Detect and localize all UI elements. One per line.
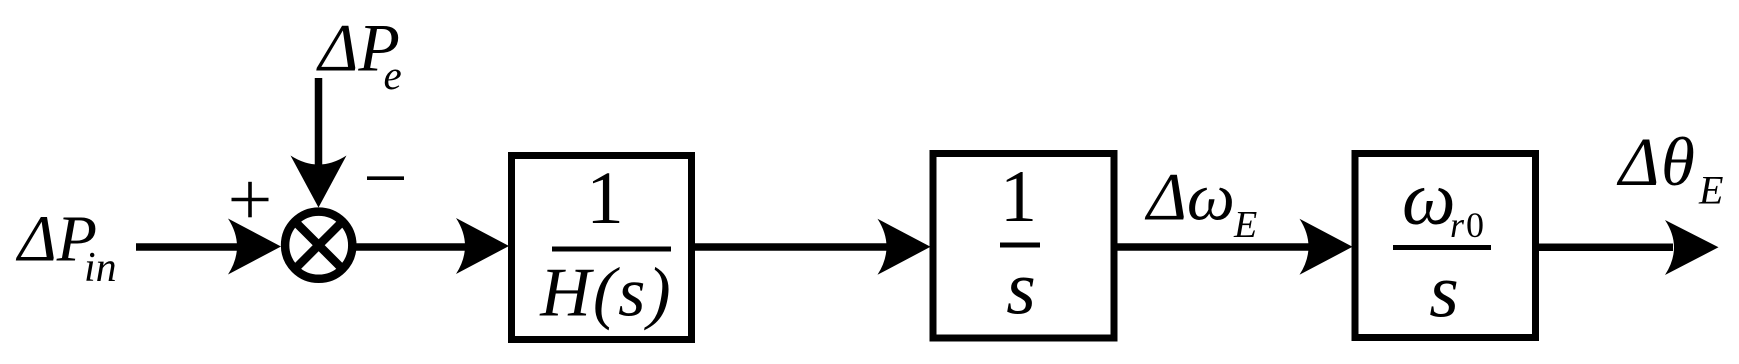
minus sign [367, 176, 404, 180]
svg-text:s: s [1429, 250, 1459, 334]
svg-text:Δθ: Δθ [1616, 124, 1696, 200]
block 1/H(s) [512, 156, 692, 340]
arrowhead output [1665, 220, 1719, 275]
wire block 1/s to block ωr0/s [1116, 243, 1309, 251]
arrowhead into block 1/H(s) [456, 218, 509, 274]
svg-text:Δω: Δω [1144, 159, 1235, 235]
wire ΔP_e down to summing junction [315, 78, 323, 165]
arrowhead into block ωr0/s [1300, 219, 1353, 275]
svg-text:1: 1 [1000, 156, 1037, 238]
block ωr0/s [1355, 154, 1536, 338]
svg-text:H(s): H(s) [539, 255, 672, 332]
svg-text:in: in [84, 245, 117, 291]
svg-text:r: r [1450, 205, 1465, 245]
node ΔP_in input label [15, 203, 117, 292]
svg-text:e: e [384, 52, 402, 98]
node Δω_E label [1144, 159, 1257, 247]
plus sign [232, 182, 269, 218]
svg-text:s: s [1006, 247, 1036, 331]
summing junction circle with X [285, 212, 352, 279]
svg-text:ω: ω [1402, 157, 1456, 241]
wire summing junction to block 1/H(s) [355, 243, 466, 251]
arrowhead into summing junction [228, 219, 281, 275]
svg-text:1: 1 [586, 157, 624, 240]
wire input ΔP_in to summing junction [136, 243, 240, 251]
arrowhead into block 1/s [878, 219, 931, 275]
svg-text:E: E [1233, 204, 1257, 246]
arrowhead down into summing junction [291, 156, 347, 208]
wire output from block ωr0/s [1538, 243, 1673, 251]
svg-text:0: 0 [1466, 205, 1484, 245]
block 1/s [933, 154, 1114, 339]
wire block 1/H(s) to block 1/s [694, 243, 887, 251]
svg-text:E: E [1698, 168, 1723, 213]
node Δθ_E output label [1616, 124, 1723, 213]
node ΔP_e top label [316, 10, 402, 99]
